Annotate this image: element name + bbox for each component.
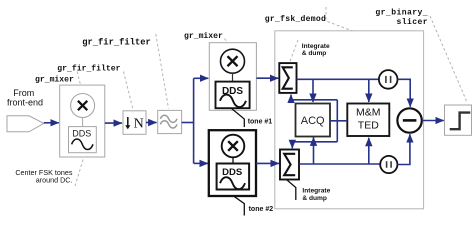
svg-text:Integrate: Integrate (302, 43, 330, 50)
mixer 1 DDS box (69, 127, 97, 153)
mixer 2 DDS sine (220, 95, 246, 107)
decimator box (123, 111, 146, 135)
dashed leader integrate top (290, 40, 299, 63)
svg-text:gr_binary_: gr_binary_ (375, 8, 428, 17)
mixer 1 connector circle to DDS (82, 118, 84, 127)
mixer 1 DDS sine (72, 139, 93, 150)
integrator top sigma glyph (283, 67, 293, 88)
svg-text:TED: TED (358, 120, 379, 132)
svg-text:gr_mixer: gr_mixer (184, 32, 223, 41)
dashed leader gr_binary_slicer (430, 16, 467, 101)
mixer 3 connector (232, 157, 234, 163)
wire bus to mixer2 (194, 77, 209, 79)
svg-text:& dump: & dump (302, 50, 327, 57)
wire mixer3 to integrator bottom (256, 162, 279, 164)
branch up to M&M TED (368, 138, 370, 164)
mixer 2 DDS box (216, 82, 250, 109)
dashed leader to mixer 2 (225, 39, 229, 45)
callout pentagon from front-end (7, 116, 44, 132)
dashed leader to low-pass filter block (156, 34, 169, 109)
wire magnitude bottom to subtractor (397, 134, 410, 164)
svg-text:around DC.: around DC. (36, 176, 73, 185)
dashed leader gr_fsk_demod (326, 7, 353, 31)
svg-text:gr_fir_filter: gr_fir_filter (57, 64, 120, 73)
filter wave glyph lower (160, 121, 177, 128)
bottom rail integrator to magnitude (299, 163, 380, 165)
dashed leader to decimator block (124, 72, 134, 110)
branch down to ACQ (312, 79, 314, 102)
wire front-end to mixer1 (44, 122, 59, 124)
branch up to ACQ (313, 137, 315, 164)
svg-text:DDS: DDS (222, 167, 242, 178)
svg-text:gr_fir_filter: gr_fir_filter (82, 38, 151, 48)
svg-text:tone #1: tone #1 (248, 119, 273, 126)
dashed leader to mixer 1 (77, 72, 82, 89)
branch down to M&M TED (368, 79, 370, 102)
mixer 3 DDS box (217, 164, 250, 190)
svg-text:N: N (134, 116, 144, 131)
mixer 3 multiplier circle (222, 135, 245, 158)
splitter bus vertical (193, 78, 195, 163)
wire bus to mixer3 (194, 162, 208, 164)
feedback to integrator top (291, 95, 337, 100)
mixer 2 connector (232, 73, 234, 81)
wire magnitude top to subtractor (398, 79, 411, 107)
wire mixer2 to integrator top (256, 77, 278, 79)
integrator top box (279, 63, 296, 93)
low-pass filter box (158, 110, 182, 133)
top rail integrator to magnitude (297, 78, 379, 80)
feedback to integrator bottom (292, 142, 337, 148)
svg-text:Integrate: Integrate (302, 187, 330, 194)
mixer 2 outer box (209, 43, 256, 111)
svg-text:gr_fsk_demod: gr_fsk_demod (265, 15, 326, 24)
mixer 3 DDS sine (220, 177, 245, 189)
wire subtractor to slicer (422, 120, 444, 122)
wire decimator to filter (146, 122, 157, 124)
mixer 3 outer box (209, 130, 256, 196)
annotation tone #1 (231, 108, 244, 127)
svg-text:slicer: slicer (396, 18, 428, 27)
mixer 1 outer box (60, 85, 105, 157)
svg-text:tone #2: tone #2 (249, 206, 274, 213)
annotation tone #2 (233, 196, 244, 216)
wire mixer1 to decimator (105, 122, 122, 124)
decimator down-arrow glyph (127, 117, 129, 127)
big container box gr_fsk_demod (275, 31, 424, 209)
annotation Integrate & dump (bottom) (286, 179, 296, 200)
ACQ box (296, 104, 331, 137)
magnitude circle top (379, 70, 398, 89)
svg-text:& dump: & dump (302, 195, 327, 202)
binary slicer box (445, 105, 472, 135)
feedback bus vertical (336, 100, 338, 142)
filter wave glyph upper (160, 115, 177, 122)
dashed leader Center FSK tones (75, 157, 84, 187)
integrator bottom box (280, 150, 299, 180)
wire ACQ to M&M TED (330, 120, 347, 122)
svg-text:ACQ: ACQ (301, 115, 325, 127)
wire filter to splitter bus (182, 122, 194, 124)
magnitude circle bottom (380, 156, 397, 173)
svg-text:DDS: DDS (72, 129, 91, 139)
subtractor circle (397, 108, 421, 132)
svg-text:front-end: front-end (7, 97, 43, 107)
svg-text:M&M: M&M (356, 107, 381, 119)
mixer 2 multiplier circle (221, 49, 245, 73)
integrator bottom sigma glyph (284, 154, 295, 175)
M&M TED box (347, 104, 389, 137)
slicer step glyph (450, 113, 471, 130)
mixer 1 multiplier circle (71, 94, 95, 118)
svg-text:gr_mixer: gr_mixer (35, 75, 74, 84)
